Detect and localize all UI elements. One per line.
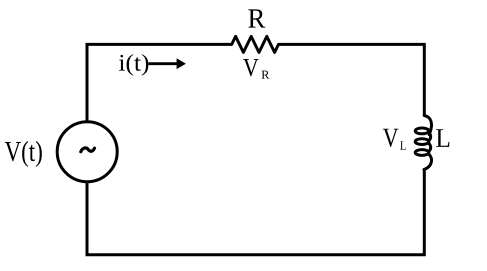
inductor L loop 3 <box>415 150 429 156</box>
wire top-right segment (resistor right lead to top-right corner) and upper right rail down to inductor <box>279 44 425 116</box>
label VR subscript R <box>262 71 270 79</box>
inductor L exit arc (bottom) <box>424 154 432 169</box>
current arrow head <box>177 58 186 69</box>
label V of VR (voltage across resistor) <box>243 59 259 76</box>
inductor right-side connector arc loop1-loop2 <box>429 133 431 141</box>
inductor L loop 1 <box>415 128 429 134</box>
resistor R zigzag <box>232 36 279 52</box>
label V(t) source voltage <box>5 141 42 167</box>
wire lower-left rail, bottom rail, lower-right rail up to inductor bottom <box>87 169 424 255</box>
inductor right-side connector arc loop2-loop3 <box>429 143 431 151</box>
label R (resistor designator) <box>248 9 265 27</box>
current arrow shaft <box>149 62 179 65</box>
AC source sine tilde symbol <box>81 148 95 152</box>
label VL subscript L <box>400 141 405 150</box>
wire top-left segment (source top to resistor left lead) and upper left rail <box>87 44 232 120</box>
label i(t) current <box>119 54 148 76</box>
AC voltage source V1 circle <box>57 122 117 182</box>
label V of VL (voltage across inductor) <box>383 129 398 147</box>
inductor L loop 2 <box>415 139 429 145</box>
inductor L entry arc (top) <box>424 116 431 135</box>
label L (inductor designator) <box>436 129 449 147</box>
